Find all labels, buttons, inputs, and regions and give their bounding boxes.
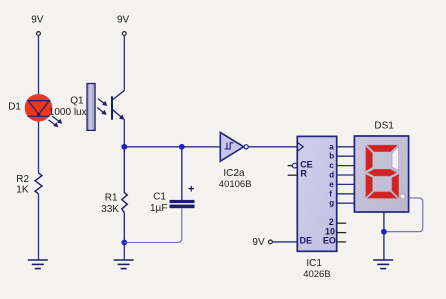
- svg-text:10: 10: [325, 227, 335, 237]
- wire 9V through LED D1 down to R2: [38, 36, 40, 174]
- segment e: [366, 174, 373, 197]
- inverter IC2a (Schmitt trigger): [219, 132, 252, 190]
- wire segment c: [337, 165, 355, 167]
- ground (left): [28, 260, 48, 269]
- svg-text:R2: R2: [16, 174, 29, 185]
- wire display common to node D: [383, 212, 385, 260]
- pin EO stub: [337, 241, 347, 243]
- wire C1 bottom loop to node C: [124, 208, 182, 242]
- wire node A to R1: [123, 147, 125, 193]
- resistor R2 1K: [16, 173, 42, 195]
- IC1 4026B counter: [288, 136, 337, 280]
- svg-text:C1: C1: [153, 191, 166, 202]
- pin 2 stub: [337, 222, 347, 224]
- segment c: [392, 174, 399, 197]
- 9V supply terminal at DE: [252, 237, 272, 248]
- svg-text:g: g: [329, 199, 334, 208]
- svg-text:9V: 9V: [31, 15, 44, 26]
- wire segment b: [337, 155, 355, 157]
- wire node C to ground: [123, 243, 125, 261]
- node D junction: [381, 229, 387, 235]
- svg-text:1000 lux: 1000 lux: [49, 107, 87, 118]
- svg-text:DS1: DS1: [374, 121, 394, 132]
- svg-text:40106B: 40106B: [219, 179, 252, 190]
- wire display right pin loop: [384, 198, 423, 232]
- LED cathode junction dot: [37, 113, 40, 116]
- phototransistor Q1: [70, 91, 124, 120]
- wire segment f: [337, 193, 355, 195]
- node B junction (C1 tap): [179, 144, 185, 150]
- svg-text:a: a: [329, 142, 334, 151]
- svg-text:d: d: [329, 171, 334, 180]
- capacitor C1 1uF: [150, 183, 195, 213]
- svg-text:R: R: [300, 168, 307, 178]
- wire segment d: [337, 174, 355, 176]
- svg-text:1µF: 1µF: [150, 203, 167, 214]
- wire R2 to ground: [38, 194, 40, 260]
- segment d: [368, 192, 397, 198]
- wire segment e: [337, 183, 355, 185]
- node C junction: [121, 240, 127, 246]
- LED D1: [8, 94, 52, 122]
- wire 9V to DE pin: [272, 241, 297, 243]
- svg-text:b: b: [329, 152, 334, 161]
- resistor R1 33K: [101, 192, 127, 214]
- svg-text:9V: 9V: [252, 237, 265, 248]
- svg-text:f: f: [329, 189, 332, 198]
- segment g: [368, 169, 396, 176]
- svg-text:DE: DE: [300, 236, 313, 246]
- ground (display): [373, 260, 393, 269]
- svg-text:D1: D1: [8, 102, 21, 113]
- segment a bevel highlight: [392, 145, 398, 151]
- node A junction: [121, 144, 127, 150]
- segment f: [366, 147, 373, 171]
- wire node B to C1: [181, 147, 183, 200]
- ground (middle): [114, 260, 134, 269]
- decimal point (off): [400, 194, 405, 199]
- svg-text:1K: 1K: [16, 184, 29, 195]
- svg-text:4026B: 4026B: [303, 269, 330, 280]
- light emission arrows from D1: [48, 116, 62, 127]
- svg-text:+: +: [188, 183, 194, 195]
- wire segment a: [337, 146, 355, 148]
- svg-text:33K: 33K: [101, 204, 119, 215]
- wire main horizontal run to inverter input: [124, 146, 220, 148]
- svg-text:IC1: IC1: [306, 258, 322, 269]
- light filter panel: [87, 84, 95, 131]
- wire Q1 emitter to node A: [123, 119, 125, 147]
- svg-text:e: e: [329, 180, 334, 189]
- svg-text:R1: R1: [105, 192, 118, 203]
- display DS1 (7-segment): [354, 121, 408, 212]
- wire R1 to node C: [123, 213, 125, 243]
- svg-text:Q1: Q1: [70, 95, 84, 106]
- wire 9V to Q1 collector: [123, 36, 125, 91]
- pin 10 stub: [337, 232, 347, 234]
- svg-text:c: c: [329, 161, 334, 170]
- 9V supply terminal (Q1 branch): [117, 15, 130, 36]
- segment a: [367, 145, 397, 151]
- svg-text:EO: EO: [323, 236, 336, 246]
- svg-text:9V: 9V: [117, 15, 130, 26]
- light arrows into Q1: [97, 99, 107, 115]
- svg-text:IC2a: IC2a: [223, 168, 245, 179]
- wire inverter output to IC1 clock: [248, 146, 297, 148]
- wire segment g: [337, 202, 355, 204]
- segment b (off): [392, 147, 399, 171]
- 9V supply terminal (LED branch): [31, 15, 44, 36]
